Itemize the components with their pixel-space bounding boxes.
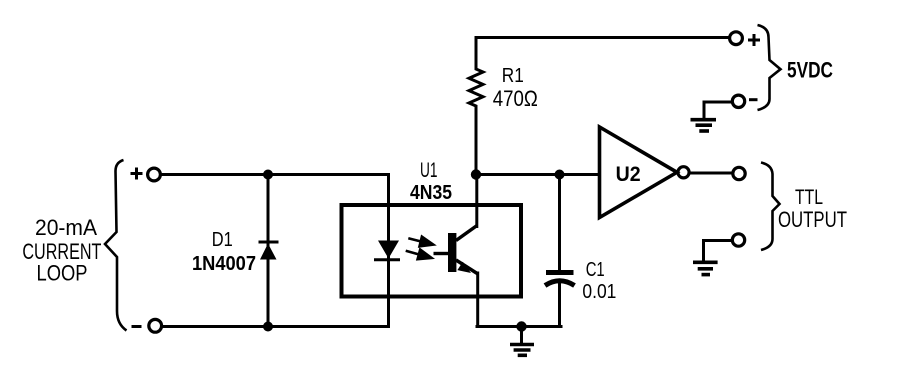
- svg-text:U1: U1: [420, 158, 438, 182]
- svg-text:4N35: 4N35: [410, 182, 452, 204]
- svg-text:D1: D1: [212, 229, 233, 251]
- svg-text:C1: C1: [586, 259, 605, 281]
- svg-text:20-mA: 20-mA: [35, 215, 97, 240]
- svg-text:0.01: 0.01: [582, 281, 616, 303]
- svg-text:U2: U2: [616, 162, 641, 186]
- svg-text:1N4007: 1N4007: [192, 253, 256, 275]
- svg-text:470Ω: 470Ω: [493, 86, 538, 111]
- svg-text:5VDC: 5VDC: [787, 58, 833, 83]
- svg-text:R1: R1: [502, 65, 524, 87]
- svg-text:TTL: TTL: [795, 186, 823, 209]
- svg-text:LOOP: LOOP: [37, 261, 88, 286]
- svg-text:OUTPUT: OUTPUT: [778, 207, 847, 232]
